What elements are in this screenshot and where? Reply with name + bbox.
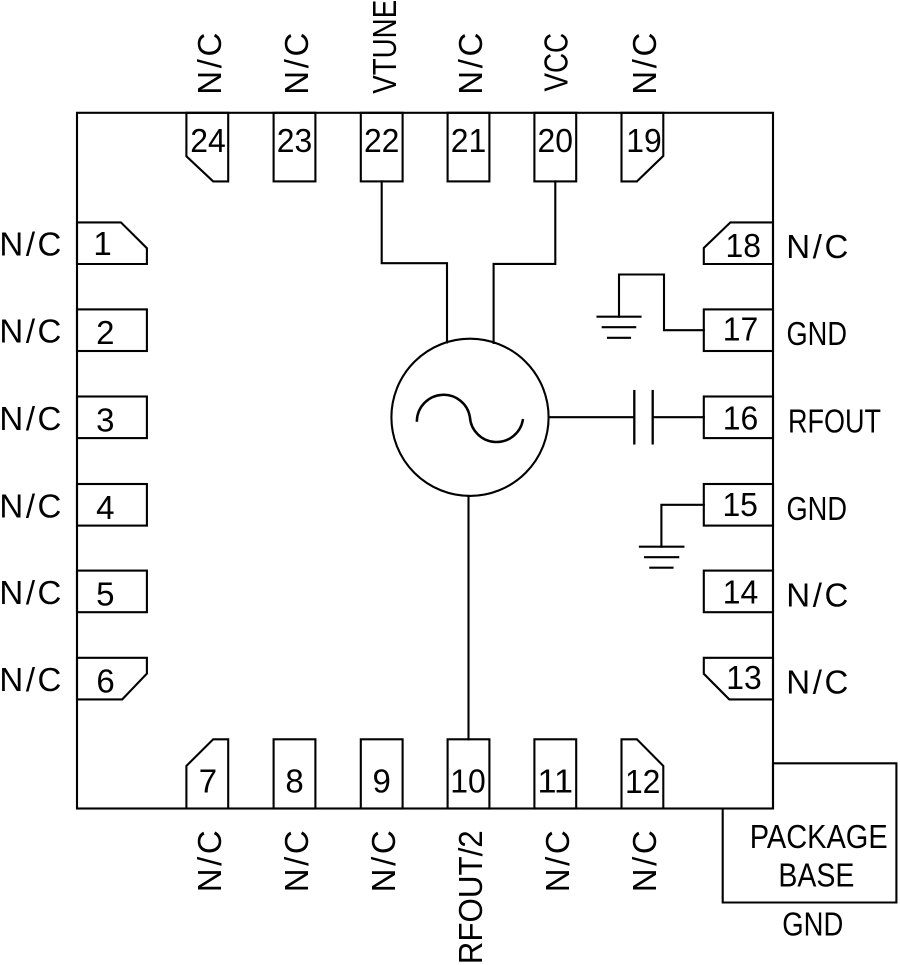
svg-text:2: 2 bbox=[96, 314, 114, 351]
svg-text:N/C: N/C bbox=[0, 574, 61, 611]
svg-text:N/C: N/C bbox=[191, 33, 228, 95]
svg-text:16: 16 bbox=[723, 399, 759, 436]
svg-text:N/C: N/C bbox=[0, 661, 61, 698]
pin 15 bbox=[704, 484, 773, 526]
svg-text:1: 1 bbox=[93, 225, 111, 262]
pin 23 bbox=[274, 113, 316, 182]
capacitor C1 right plate bbox=[652, 391, 654, 443]
pin 5 bbox=[77, 571, 147, 613]
pin 11 bbox=[534, 739, 576, 808]
svg-text:24: 24 bbox=[190, 122, 226, 159]
svg-text:PACKAGE: PACKAGE bbox=[750, 818, 888, 855]
svg-text:N/C: N/C bbox=[0, 487, 61, 524]
pin 17 bbox=[704, 309, 773, 351]
svg-text:11: 11 bbox=[538, 762, 574, 799]
svg-text:20: 20 bbox=[538, 122, 574, 159]
svg-text:N/C: N/C bbox=[0, 400, 61, 437]
pin 14 bbox=[704, 571, 773, 613]
svg-text:N/C: N/C bbox=[452, 33, 489, 95]
pin 20 bbox=[534, 113, 576, 182]
pin 4 bbox=[77, 484, 147, 526]
svg-text:3: 3 bbox=[96, 401, 114, 438]
ground symbol (pin 15 net) bbox=[640, 547, 684, 568]
wire VCC net: pin 20 to oscillator bbox=[494, 181, 556, 343]
svg-text:21: 21 bbox=[451, 122, 487, 159]
ground symbol (pin 17 net) bbox=[598, 317, 641, 338]
svg-text:9: 9 bbox=[373, 762, 391, 799]
svg-text:N/C: N/C bbox=[626, 830, 663, 892]
svg-text:4: 4 bbox=[96, 489, 114, 526]
wire GND net: pin 15 to ground symbol bbox=[661, 505, 703, 547]
pin 10 bbox=[448, 739, 490, 808]
svg-text:5: 5 bbox=[96, 575, 114, 612]
svg-text:N/C: N/C bbox=[539, 830, 576, 892]
svg-text:14: 14 bbox=[723, 573, 759, 610]
svg-text:GND: GND bbox=[787, 315, 848, 352]
pin 12 (chamfered) bbox=[622, 739, 664, 808]
svg-text:7: 7 bbox=[199, 762, 217, 799]
svg-text:VTUNE: VTUNE bbox=[366, 0, 403, 94]
pin 22 bbox=[361, 113, 403, 182]
PACKAGE BASE pad outline bbox=[723, 763, 897, 902]
wire RFOUT/2 net: oscillator to pin 10 bbox=[467, 496, 469, 739]
svg-text:N/C: N/C bbox=[786, 228, 848, 265]
svg-text:6: 6 bbox=[96, 663, 114, 700]
oscillator sine wave bbox=[417, 395, 523, 442]
svg-text:10: 10 bbox=[450, 762, 486, 799]
svg-text:N/C: N/C bbox=[0, 313, 61, 350]
IC body outline U1 bbox=[77, 113, 773, 809]
svg-text:15: 15 bbox=[722, 486, 758, 523]
svg-text:N/C: N/C bbox=[626, 33, 663, 95]
svg-text:12: 12 bbox=[625, 763, 661, 800]
svg-text:13: 13 bbox=[726, 659, 762, 696]
capacitor C1 left plate bbox=[633, 391, 635, 443]
svg-text:N/C: N/C bbox=[278, 33, 315, 95]
pin 24 (chamfered) bbox=[186, 113, 228, 182]
pin 21 bbox=[448, 113, 490, 182]
svg-text:N/C: N/C bbox=[0, 226, 61, 263]
svg-text:N/C: N/C bbox=[786, 664, 848, 701]
pin 13 (chamfered) bbox=[704, 658, 773, 700]
svg-text:GND: GND bbox=[782, 906, 843, 943]
wire VTUNE net: pin 22 to oscillator bbox=[382, 181, 447, 342]
pin 19 (chamfered) bbox=[622, 113, 664, 182]
pin 1 (chamfered) bbox=[77, 222, 147, 264]
svg-text:17: 17 bbox=[723, 311, 759, 348]
svg-text:VCC: VCC bbox=[538, 33, 575, 92]
svg-text:RFOUT: RFOUT bbox=[788, 402, 881, 439]
pin 6 (chamfered) bbox=[77, 658, 147, 700]
svg-text:RFOUT/2: RFOUT/2 bbox=[452, 830, 489, 964]
pin 2 bbox=[77, 309, 147, 351]
svg-text:23: 23 bbox=[277, 122, 313, 159]
pin 3 bbox=[77, 397, 147, 439]
svg-text:22: 22 bbox=[364, 122, 400, 159]
wire RFOUT net: capacitor C1 to pin 16 bbox=[653, 416, 704, 418]
svg-text:BASE: BASE bbox=[778, 856, 854, 893]
wire RFOUT net: oscillator to capacitor C1 bbox=[549, 416, 635, 418]
svg-text:N/C: N/C bbox=[278, 830, 315, 892]
oscillator U2 circle bbox=[391, 339, 548, 496]
svg-text:N/C: N/C bbox=[786, 576, 848, 613]
svg-text:18: 18 bbox=[726, 227, 762, 264]
pin 9 bbox=[361, 739, 403, 808]
svg-text:8: 8 bbox=[285, 762, 303, 799]
pin 16 bbox=[704, 397, 773, 439]
svg-text:GND: GND bbox=[787, 490, 848, 527]
pin 18 (chamfered) bbox=[704, 222, 773, 264]
svg-text:19: 19 bbox=[626, 122, 662, 159]
svg-text:N/C: N/C bbox=[191, 830, 228, 892]
pin 7 (chamfered) bbox=[186, 739, 228, 808]
wire GND net: pin 17 to ground symbol bbox=[619, 275, 704, 331]
svg-text:N/C: N/C bbox=[365, 830, 402, 892]
pin 8 bbox=[274, 739, 316, 808]
